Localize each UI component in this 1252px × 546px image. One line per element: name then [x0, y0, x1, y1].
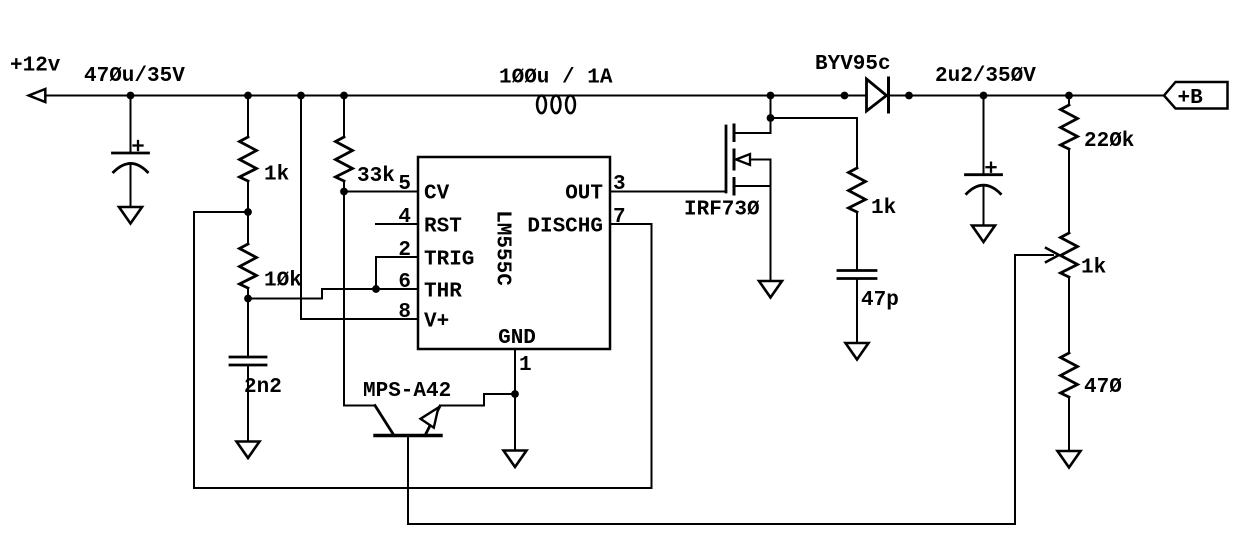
node main bus at Q2 drain [767, 92, 775, 100]
svg-text:BYV95c: BYV95c [815, 53, 891, 76]
wire R3 bottom lead [343, 181, 345, 192]
svg-text:2u2/35ØV: 2u2/35ØV [935, 65, 1036, 88]
wire C4 bottom lead [983, 186, 985, 226]
svg-text:1k: 1k [1081, 257, 1106, 280]
svg-text:IRF73Ø: IRF73Ø [684, 199, 760, 222]
node main bus at C1 [127, 92, 135, 100]
svg-text:3: 3 [613, 173, 626, 196]
wire R3 top lead [343, 96, 345, 138]
wire snubber branch [771, 118, 858, 168]
svg-text:1k: 1k [264, 164, 289, 187]
node D1 cathode [905, 92, 913, 100]
svg-text:V+: V+ [424, 311, 449, 334]
wire CV pin 5 [344, 191, 418, 193]
label 470u/35V [84, 65, 185, 88]
svg-text:47p: 47p [861, 289, 899, 312]
ground below C4 [972, 226, 995, 243]
wire Q1 base feedback [408, 255, 1015, 524]
svg-text:47Ø: 47Ø [1084, 376, 1122, 399]
svg-text:1ØØu / 1A: 1ØØu / 1A [499, 67, 613, 90]
label C4 2u2/350V [935, 65, 1036, 88]
resistor R1 1k [240, 137, 257, 181]
wire node to left rail [194, 211, 248, 213]
wire R7 bottom lead [1068, 397, 1070, 451]
svg-text:7: 7 [613, 206, 626, 229]
label L1 100u / 1A [499, 67, 613, 90]
pin label V+ [424, 311, 449, 334]
svg-text:+12v: +12v [10, 55, 61, 78]
pin label DISCHG [527, 216, 603, 239]
node R2/C2/THR junction [244, 295, 252, 303]
wire OUT pin 3 [610, 191, 726, 193]
wire THR from R2 node [248, 289, 418, 299]
svg-text:2n2: 2n2 [244, 376, 282, 399]
svg-text:33k: 33k [357, 165, 395, 188]
pin number 8 [398, 301, 411, 324]
resistor R5 220k [1061, 105, 1078, 149]
node C4 junction [980, 92, 988, 100]
svg-text:5: 5 [398, 173, 411, 196]
pin number 4 [398, 206, 411, 229]
svg-text:OUT: OUT [565, 183, 603, 206]
wire R4 to C3 [856, 212, 858, 271]
ground below R7 [1058, 451, 1081, 468]
power flag +12v input arrow [29, 89, 46, 102]
label R5 220k [1084, 130, 1134, 153]
pin number 1 [519, 354, 532, 377]
pin label TRIG [424, 249, 474, 272]
ground below C1 [119, 207, 142, 224]
node D1 anode [841, 92, 849, 100]
node R1/R2 junction [244, 208, 252, 216]
wire bottom rail to DISCHG [194, 487, 652, 489]
wire R5 top lead [1068, 96, 1070, 106]
potentiometer R6 1k [1061, 233, 1078, 277]
wire left rail down [193, 212, 195, 488]
svg-text:2: 2 [398, 239, 411, 262]
svg-text:22Øk: 22Øk [1084, 130, 1134, 153]
transistor Q1 emitter lead [425, 406, 440, 436]
svg-text:MPS-A42: MPS-A42 [363, 380, 451, 403]
svg-text:1Øk: 1Øk [264, 270, 302, 293]
label R1 1k [264, 164, 289, 187]
svg-text:1k: 1k [871, 197, 896, 220]
transistor Q2 channel segments [733, 125, 736, 194]
wire RST pin 4 stub [376, 223, 418, 225]
node R5 junction [1065, 92, 1073, 100]
capacitor C4 2u2/350V [966, 163, 1002, 194]
label R4 1k [871, 197, 896, 220]
pin number 6 [398, 271, 411, 294]
label +B [1178, 87, 1204, 110]
wire DISCHG pin 7 stub [610, 223, 652, 225]
pin label OUT [565, 183, 603, 206]
wire Q2 source to ground [770, 160, 772, 282]
label D1 BYV95c [815, 53, 891, 76]
resistor R7 470 [1061, 353, 1078, 397]
svg-text:4: 4 [398, 206, 411, 229]
pin number 2 [398, 239, 411, 262]
wire Q2 drain lead [734, 118, 771, 133]
output flag +B [1164, 82, 1228, 109]
svg-text:DISCHG: DISCHG [527, 216, 603, 239]
wire Q1 emitter to GND node [440, 394, 515, 406]
ground below U1 GND [504, 451, 527, 468]
node R3/CV junction [340, 188, 348, 196]
wire C1 bottom lead [130, 164, 132, 207]
svg-text:CV: CV [424, 183, 450, 206]
pin number 5 [398, 173, 411, 196]
resistor R3 33k [336, 137, 353, 181]
label +12v [10, 55, 61, 78]
label R2 10k [264, 270, 302, 293]
capacitor C3 47p [838, 271, 876, 279]
capacitor C2 2n2 [230, 357, 266, 365]
wire C2 top lead [247, 299, 249, 358]
pot wiper arrowhead [1046, 248, 1059, 262]
svg-text:RST: RST [424, 216, 462, 239]
wire Q2 source lead [734, 185, 771, 187]
svg-text:TRIG: TRIG [424, 249, 474, 272]
wire pot wiper [1015, 254, 1053, 256]
op-amp U1 LM555C body [418, 157, 610, 349]
label C2 2n2 [244, 376, 282, 399]
ground below Q2 source [759, 281, 782, 298]
wire C2 bottom lead [247, 365, 249, 442]
wire R1 bottom lead [247, 181, 249, 212]
diode D1 BYV95c [867, 78, 889, 112]
inductor L1 100u/1A [537, 96, 575, 114]
wire TRIG pin 2 [376, 257, 418, 289]
wire C4 top lead [983, 96, 985, 175]
wire C1 top lead [130, 96, 132, 154]
pin label GND [498, 327, 536, 350]
wire Q2 drain drop [770, 96, 772, 119]
pin label THR [424, 281, 462, 304]
svg-text:47Øu/35V: 47Øu/35V [84, 65, 185, 88]
node GND/emitter junction [511, 390, 519, 398]
label Q2 IRF730 [684, 199, 760, 222]
ground below C3 [846, 343, 869, 360]
wire V+ pin 8 feed [301, 96, 418, 320]
wire Q2 body lead [750, 159, 771, 161]
node main bus at R2 33k [340, 92, 348, 100]
svg-text:6: 6 [398, 271, 411, 294]
svg-text:THR: THR [424, 281, 462, 304]
pin number 3 [613, 173, 626, 196]
wire C3 bottom lead [856, 279, 858, 344]
label C3 47p [861, 289, 899, 312]
label U1 LM555C [491, 210, 514, 286]
wire pot to R7 [1068, 277, 1070, 353]
resistor R4 1k snubber [849, 168, 866, 212]
label R6 1k [1081, 257, 1106, 280]
transistor Q1 emitter arrow [421, 408, 439, 428]
svg-text:8: 8 [398, 301, 411, 324]
resistor R2 10k [240, 212, 257, 299]
wire R1 top lead [247, 96, 249, 138]
label Q1 MPS-A42 [363, 380, 451, 403]
pin number 7 [613, 206, 626, 229]
transistor Q2 IRF730 gate line [725, 126, 728, 192]
pin label CV [424, 183, 450, 206]
svg-text:+B: +B [1178, 87, 1204, 110]
transistor Q2 body arrow [736, 154, 750, 165]
label R3 33k [357, 165, 395, 188]
node Q2 drain/snubber junction [767, 114, 775, 122]
wire DISCHG drop [651, 224, 653, 488]
wire GND pin 1 [514, 349, 516, 451]
ground below C2 [237, 442, 260, 459]
svg-text:LM555C: LM555C [491, 210, 514, 286]
node main bus at V+ drop [297, 92, 305, 100]
transistor Q1 base bar [375, 434, 441, 437]
svg-text:1: 1 [519, 354, 532, 377]
label R7 470 [1084, 376, 1122, 399]
wire Q1 collector from CV node [344, 192, 375, 406]
svg-text:GND: GND [498, 327, 536, 350]
pin label RST [424, 216, 462, 239]
capacitor C1 470u/35V [113, 141, 149, 172]
node TRIG-THR junction [372, 285, 380, 293]
node main bus at R1 [244, 92, 252, 100]
wire R5 to pot [1068, 149, 1070, 233]
transistor Q1 MPS-A42 collector lead [375, 406, 394, 436]
wire main +12V bus [45, 95, 1164, 97]
